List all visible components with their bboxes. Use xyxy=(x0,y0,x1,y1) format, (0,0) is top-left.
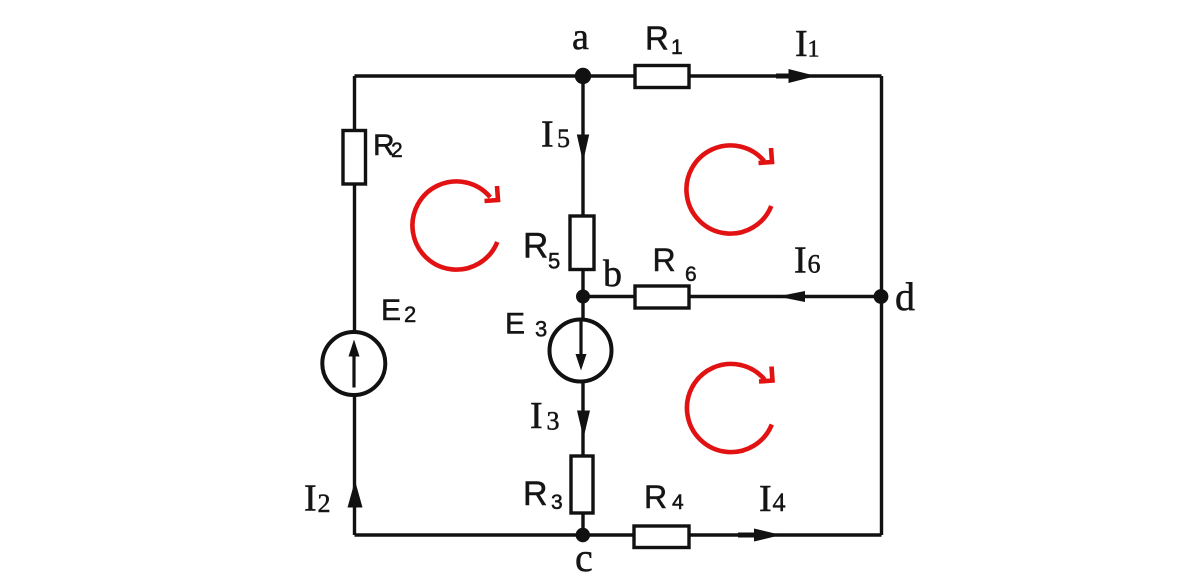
node b xyxy=(576,253,622,304)
svg-text:b: b xyxy=(603,253,622,295)
svg-text:d: d xyxy=(895,274,915,319)
svg-text:R: R xyxy=(523,227,548,266)
mesh loop arrow (bottom right, red) xyxy=(687,364,773,452)
svg-text:1: 1 xyxy=(808,37,820,63)
source E3 xyxy=(505,308,612,382)
resistor R1 xyxy=(635,20,689,88)
wire: bottom horizontal c-row xyxy=(355,533,882,536)
node c xyxy=(575,528,593,580)
svg-text:I: I xyxy=(541,114,554,156)
svg-text:I: I xyxy=(530,395,543,437)
svg-text:R: R xyxy=(523,475,548,513)
svg-text:2: 2 xyxy=(318,489,331,518)
svg-text:R: R xyxy=(644,479,667,515)
wire: middle vertical branch a-b-c xyxy=(581,76,584,535)
svg-text:R: R xyxy=(653,242,676,278)
mesh loop arrow (top right, red) xyxy=(686,145,772,233)
svg-text:5: 5 xyxy=(548,249,560,274)
mesh loop arrow (left, red) xyxy=(412,181,498,269)
current arrow I6 xyxy=(778,240,821,303)
node d xyxy=(874,274,915,319)
current arrow I1 xyxy=(776,23,820,83)
svg-text:3: 3 xyxy=(535,317,547,342)
resistor R6 xyxy=(635,242,697,308)
svg-text:5: 5 xyxy=(557,124,570,153)
current arrow I3 xyxy=(530,395,590,438)
resistor R5 xyxy=(523,216,594,274)
resistor R2 xyxy=(343,129,403,184)
svg-text:4: 4 xyxy=(773,488,786,517)
svg-text:2: 2 xyxy=(404,302,416,327)
svg-text:1: 1 xyxy=(671,36,683,59)
wire: horizontal branch b-d xyxy=(583,295,881,298)
svg-text:I: I xyxy=(794,240,807,282)
wire: right vertical branch xyxy=(880,76,883,535)
source E2 xyxy=(322,294,416,395)
svg-text:3: 3 xyxy=(551,491,563,514)
node a xyxy=(572,16,591,84)
svg-text:E: E xyxy=(381,294,401,327)
svg-text:3: 3 xyxy=(547,407,560,436)
svg-text:I: I xyxy=(759,478,772,520)
svg-text:R: R xyxy=(645,20,669,57)
resistor R3 xyxy=(523,456,593,514)
current arrow I5 xyxy=(541,114,589,163)
svg-text:4: 4 xyxy=(672,491,684,514)
svg-text:E: E xyxy=(505,308,525,341)
svg-text:c: c xyxy=(575,535,593,580)
current arrow I4 xyxy=(738,478,786,542)
wire: left vertical branch xyxy=(353,76,356,535)
svg-text:a: a xyxy=(572,16,589,58)
wire: top horizontal a-row xyxy=(355,74,882,77)
svg-text:6: 6 xyxy=(685,263,697,286)
resistor R4 xyxy=(634,479,689,548)
current arrow I2 xyxy=(304,478,363,520)
svg-text:2: 2 xyxy=(391,139,403,162)
svg-text:I: I xyxy=(304,478,317,520)
svg-text:I: I xyxy=(795,23,808,65)
svg-text:6: 6 xyxy=(808,250,821,279)
